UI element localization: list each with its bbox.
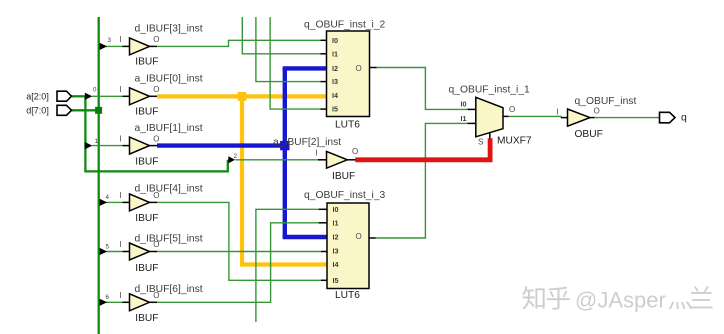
svg-text:q_OBUF_inst_i_3: q_OBUF_inst_i_3: [304, 190, 386, 201]
svg-text:I3: I3: [332, 77, 338, 86]
svg-text:I1: I1: [461, 114, 467, 123]
svg-text:I: I: [557, 108, 559, 117]
svg-text:O: O: [594, 107, 600, 116]
svg-text:LUT6: LUT6: [335, 120, 360, 131]
svg-text:IBUF: IBUF: [135, 313, 158, 324]
svg-text:OBUF: OBUF: [575, 129, 603, 140]
svg-text:LUT6: LUT6: [335, 290, 360, 301]
svg-text:O: O: [153, 191, 159, 200]
svg-text:@JAsper: @JAsper: [575, 288, 666, 313]
svg-text:I5: I5: [332, 105, 338, 114]
svg-text:O: O: [153, 85, 159, 94]
svg-text:I4: I4: [332, 91, 338, 100]
svg-text:I4: I4: [333, 260, 339, 269]
svg-text:IBUF: IBUF: [135, 107, 158, 118]
svg-text:I: I: [119, 240, 121, 249]
svg-text:IBUF: IBUF: [135, 57, 158, 68]
svg-text:O: O: [352, 147, 358, 156]
svg-text:I: I: [119, 85, 121, 94]
svg-text:I5: I5: [333, 276, 339, 285]
svg-text:d[7:0]: d[7:0]: [26, 106, 49, 116]
svg-text:MUXF7: MUXF7: [497, 136, 532, 147]
svg-text:I0: I0: [332, 36, 338, 45]
svg-text:I: I: [119, 134, 121, 143]
svg-text:O: O: [356, 64, 362, 73]
svg-text:I1: I1: [333, 218, 339, 227]
svg-text:q: q: [681, 111, 687, 123]
svg-text:d_IBUF[6]_inst: d_IBUF[6]_inst: [135, 284, 203, 295]
svg-text:I3: I3: [333, 246, 339, 255]
svg-text:O: O: [153, 134, 159, 143]
svg-text:S: S: [478, 138, 483, 147]
svg-text:a_IBUF[0]_inst: a_IBUF[0]_inst: [135, 74, 203, 85]
svg-text:5: 5: [106, 243, 110, 250]
svg-text:I0: I0: [333, 205, 339, 214]
svg-text:I0: I0: [461, 100, 467, 109]
svg-text:3: 3: [108, 37, 112, 44]
svg-text:I: I: [119, 35, 121, 44]
svg-text:O: O: [509, 105, 515, 114]
svg-text:a_IBUF[1]_inst: a_IBUF[1]_inst: [135, 123, 203, 134]
svg-text:IBUF: IBUF: [135, 213, 158, 224]
svg-text:0: 0: [93, 86, 97, 93]
svg-text:6: 6: [106, 294, 110, 301]
svg-text:d_IBUF[3]_inst: d_IBUF[3]_inst: [135, 24, 203, 35]
svg-text:2: 2: [234, 153, 238, 160]
svg-text:I1: I1: [332, 49, 338, 58]
svg-text:I: I: [119, 291, 121, 300]
svg-text:O: O: [153, 291, 159, 300]
svg-text:O: O: [153, 35, 159, 44]
svg-text:I2: I2: [333, 233, 339, 242]
svg-text:IBUF: IBUF: [135, 263, 158, 274]
svg-text:d_IBUF[5]_inst: d_IBUF[5]_inst: [135, 234, 203, 245]
svg-text:I: I: [316, 149, 318, 158]
svg-text:a_IBUF[2]_inst: a_IBUF[2]_inst: [273, 137, 341, 148]
svg-text:q_OBUF_inst_i_1: q_OBUF_inst_i_1: [449, 85, 531, 96]
svg-text:a[2:0]: a[2:0]: [26, 92, 49, 102]
svg-text:IBUF: IBUF: [135, 156, 158, 167]
svg-text:I2: I2: [332, 64, 338, 73]
svg-text:1: 1: [95, 138, 99, 145]
svg-text:I: I: [119, 191, 121, 200]
svg-text:O: O: [356, 232, 362, 241]
svg-text:4: 4: [106, 194, 110, 201]
svg-text:O: O: [153, 240, 159, 249]
svg-text:q_OBUF_inst: q_OBUF_inst: [575, 96, 637, 107]
svg-text:d_IBUF[4]_inst: d_IBUF[4]_inst: [135, 184, 203, 195]
svg-text:q_OBUF_inst_i_2: q_OBUF_inst_i_2: [304, 19, 386, 30]
svg-text:IBUF: IBUF: [332, 171, 355, 182]
